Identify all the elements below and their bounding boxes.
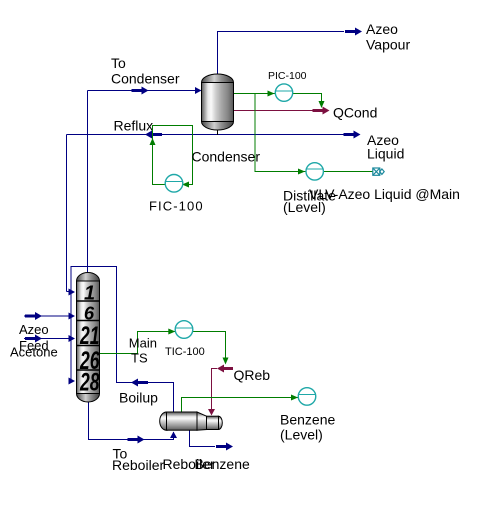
node To Condenser label (111, 55, 180, 87)
valve VLV-Azeo Liquid icon (373, 168, 384, 175)
wire Acetone feed stream (24, 338, 70, 340)
wire To Reboiler stream (89, 401, 174, 440)
svg-text:Reboiler: Reboiler (112, 457, 164, 473)
wire Benzene level signal (182, 398, 299, 413)
svg-text:Liquid: Liquid (367, 146, 404, 162)
svg-text:Azeo: Azeo (19, 322, 49, 337)
svg-text:Vapour: Vapour (366, 37, 410, 53)
svg-text:Reboiler: Reboiler (163, 456, 215, 472)
wire Azeo Vapour arrow (345, 28, 362, 36)
svg-text:Boilup: Boilup (119, 390, 158, 406)
svg-text:TS: TS (131, 351, 148, 366)
svg-text:TIC-100: TIC-100 (165, 346, 205, 358)
wire arrow into tray 28 (69, 378, 76, 385)
svg-text:Azeo: Azeo (366, 21, 398, 37)
controller Benzene level (298, 388, 316, 406)
wire To Reboiler arrow (128, 436, 145, 444)
svg-text:Condenser: Condenser (111, 71, 180, 87)
svg-text:Acetone: Acetone (10, 345, 58, 360)
svg-text:Main: Main (129, 336, 157, 351)
node Main TS label (129, 336, 157, 366)
wire PIC-100 signal from condenser (234, 94, 322, 105)
wire Boilup route reboiler to column tray 28 (71, 267, 174, 413)
wire TIC-100 signal (99, 332, 226, 361)
svg-text:6: 6 (84, 303, 95, 324)
wire arrow into tray 21 (69, 335, 76, 342)
wire arrow into reboiler bottom (170, 432, 177, 439)
vessel column tray section Main TS (77, 273, 100, 403)
wire FIC-100 signal loop (153, 126, 193, 185)
svg-text:21: 21 (79, 322, 99, 350)
svg-text:FIC-100: FIC-100 (149, 199, 204, 214)
wire QReb energy stream (212, 369, 218, 412)
wire arrow into tray 1 (69, 289, 76, 296)
svg-text:(Level): (Level) (280, 427, 323, 443)
svg-text:Reflux: Reflux (114, 118, 154, 134)
node Distillate (Level) label (283, 188, 336, 216)
controller Distillate level (306, 163, 323, 180)
svg-text:Condenser: Condenser (192, 149, 261, 165)
svg-text:1: 1 (84, 283, 95, 305)
node Azeo Liquid label (367, 132, 404, 162)
svg-text:QCond: QCond (333, 105, 377, 121)
svg-text:To: To (111, 55, 126, 71)
svg-text:PIC-100: PIC-100 (268, 70, 307, 82)
wire arrow into tray 6 (69, 313, 76, 320)
svg-text:VLV-Azeo Liquid @Main: VLV-Azeo Liquid @Main (309, 186, 460, 202)
controller FIC-100 (165, 175, 183, 193)
wire Azeo Liquid arrow (344, 131, 361, 139)
wire Benzene arrow (216, 443, 233, 451)
node Azeo Vapour label (366, 21, 410, 53)
wire Distillate level signal (255, 94, 373, 172)
wire Boilup arrow (131, 379, 148, 387)
wire Benzene product stream (190, 430, 216, 447)
wire QCond energy stream (234, 110, 315, 112)
wire Azeo Vapour stream line (218, 32, 345, 75)
node Azeo Feed label (19, 322, 49, 353)
svg-text:QReb: QReb (234, 367, 271, 383)
svg-text:Benzene: Benzene (280, 412, 335, 428)
wire To Condenser stream line (88, 91, 201, 273)
controller TIC-100 (175, 321, 193, 339)
vessel reboiler (160, 412, 223, 430)
node Benzene (Level) label (280, 412, 335, 443)
wire Azeo Feed stream (24, 315, 70, 317)
vessel condenser E-100 (202, 74, 234, 135)
controller PIC-100 (275, 84, 292, 101)
node To Reboiler label (112, 446, 164, 474)
wire Reflux arrow (145, 131, 162, 139)
wire To Condenser arrow (132, 87, 202, 95)
svg-text:28: 28 (79, 369, 99, 397)
wire Reflux / Azeo Liquid header line (67, 135, 345, 292)
